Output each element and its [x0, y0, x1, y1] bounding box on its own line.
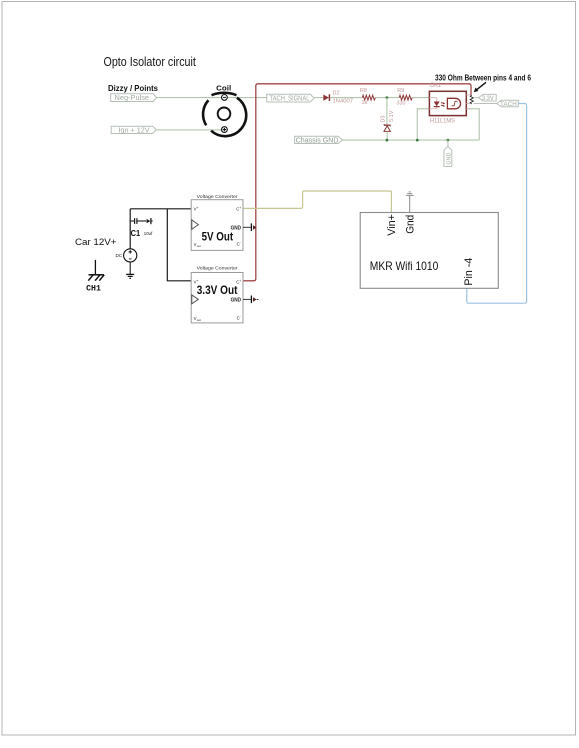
coil T1 [203, 84, 246, 136]
svg-text:+: + [197, 206, 199, 210]
svg-text:Neg-Pulse: Neg-Pulse [115, 95, 150, 102]
svg-text:R9: R9 [397, 88, 404, 94]
net flag TACH_SIGNAL [267, 94, 315, 102]
svg-text:1N4007: 1N4007 [333, 99, 354, 105]
svg-text:+: + [239, 279, 241, 283]
svg-text:OK1: OK1 [430, 83, 442, 89]
svg-text:D2: D2 [333, 90, 340, 96]
blue wire TACH to Pin 4 [467, 104, 527, 304]
resistor R8 1k [360, 88, 376, 106]
LED inside [429, 98, 436, 102]
svg-text:GND: GND [231, 298, 242, 304]
net flag Neg-Pulse [111, 94, 157, 103]
svg-text:Coil: Coil [216, 84, 231, 93]
junction dot gnd flag [447, 139, 450, 142]
wire TACH_SIGNAL to D2 [314, 97, 323, 99]
svg-text:10uf: 10uf [144, 231, 153, 236]
wire pin6 to 3.3V flag [474, 97, 479, 99]
svg-text:330: 330 [397, 101, 406, 107]
svg-text:D3: D3 [381, 116, 387, 123]
net flag 3.3V [479, 94, 497, 102]
svg-text:Dizzy / Points: Dizzy / Points [108, 83, 158, 93]
net flag Ign + 12V [111, 126, 156, 134]
wire rail up to opto pin2 [417, 109, 429, 140]
wire stub to GND flag [447, 140, 449, 146]
net flag Chassis GND [295, 136, 343, 144]
wire R9 to opto pin1 [412, 97, 429, 99]
wire Ign+12V to coil + terminal [156, 129, 224, 131]
svg-text:330 Ohm Between pins 4 and 6: 330 Ohm Between pins 4 and 6 [435, 74, 532, 83]
svg-text:Voltage Converter: Voltage Converter [197, 266, 238, 272]
wire chassis gnd rail [342, 139, 479, 141]
resistor 330 between pins 4 and 6 [470, 95, 473, 104]
svg-text:out: out [197, 318, 201, 322]
svg-text:Car 12V+: Car 12V+ [75, 237, 117, 247]
annotation arrow [474, 82, 486, 92]
black wire to 3.3V converter V+ [167, 209, 191, 281]
svg-text:-: - [240, 241, 241, 245]
node junction dot [386, 96, 389, 99]
junction dot rail left [416, 139, 419, 142]
junction dot zener/rail [386, 139, 389, 142]
svg-text:1k: 1k [362, 100, 368, 106]
svg-text:TACH_SIGNAL: TACH_SIGNAL [270, 96, 310, 103]
wire rail up to opto pin5 [466, 109, 479, 140]
svg-text:Pin -4: Pin -4 [463, 258, 475, 286]
wire zener to gnd rail [386, 132, 388, 141]
svg-text:Gnd: Gnd [405, 215, 417, 234]
svg-text:GND: GND [446, 152, 452, 164]
gnd cap symbol [243, 298, 251, 300]
opto-isolator OK1 H11L1MS [429, 83, 470, 125]
zener diode D3 5.1V [381, 110, 395, 131]
detector D-shape [447, 98, 460, 109]
top cap arc [212, 93, 237, 95]
svg-text:MKR Wifi 1010: MKR Wifi 1010 [370, 259, 439, 273]
svg-text:H11L1MS: H11L1MS [430, 119, 455, 125]
left arc [203, 100, 208, 125]
wire pin4 to TACH flag [474, 103, 497, 105]
right-bottom arc [211, 98, 246, 136]
svg-text:out: out [197, 244, 201, 248]
svg-text:DC: DC [116, 253, 123, 258]
chassis ground CH1 [86, 260, 104, 294]
wire node down to zener [386, 98, 388, 125]
inner circle [218, 108, 231, 121]
gnd cap symbol [243, 226, 251, 228]
svg-text:3.3V Out: 3.3V Out [197, 283, 238, 297]
svg-text:C1: C1 [131, 229, 141, 238]
svg-text:TACH: TACH [500, 101, 517, 108]
net flag TACH [497, 100, 519, 108]
minus terminal [222, 95, 228, 101]
svg-text:CH1: CH1 [86, 284, 101, 294]
svg-text:5V Out: 5V Out [202, 229, 234, 243]
voltage converter U3 3.3V [191, 266, 258, 323]
svg-text:Opto Isolator circuit: Opto Isolator circuit [104, 54, 197, 69]
black wire DC to rail [129, 209, 131, 249]
wire D2 to R8 [330, 97, 362, 99]
svg-text:+: + [239, 206, 241, 210]
gnd symbol above Gnd pin [409, 195, 411, 212]
svg-text:R8: R8 [360, 88, 367, 94]
resistor R9 330 [397, 88, 413, 106]
svg-text:Chassis GND: Chassis GND [296, 137, 339, 144]
red supply wire 3.3V path [243, 84, 471, 281]
MKR Wifi 1010 box [360, 192, 498, 288]
wire Neg-Pulse to coil to TACH_SIGNAL [156, 97, 266, 99]
svg-text:-: - [240, 315, 241, 319]
diode D2 1N4007 [323, 90, 353, 104]
voltage converter U2 5V [191, 194, 256, 250]
capacitor C1 10uf [130, 218, 153, 238]
plus terminal [222, 127, 228, 133]
DC source [116, 249, 137, 279]
wire R8 to node to R9 [375, 97, 399, 99]
black wire top rail [130, 208, 191, 210]
olive wire 5V out to MKR Vin+ [243, 191, 391, 212]
emission arrows [441, 102, 444, 105]
svg-text:3.3V: 3.3V [482, 95, 494, 102]
svg-text:Vin+: Vin+ [386, 214, 398, 236]
svg-text:Ign + 12V: Ign + 12V [119, 128, 150, 135]
pin stubs [466, 94, 470, 96]
svg-text:5.1V: 5.1V [389, 110, 395, 122]
net flag GND [444, 146, 453, 166]
